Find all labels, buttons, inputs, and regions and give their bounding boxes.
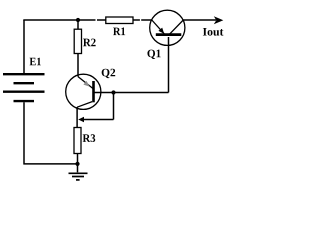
transistor Q2 base bar <box>92 81 95 102</box>
transistor Q1 emitter arrow <box>158 28 164 34</box>
node: junction dot rail/R2 <box>76 18 80 22</box>
wire: top rail from left corner to R1 (small break near x=96) <box>23 19 106 21</box>
transistor Q1 circle <box>150 10 185 45</box>
transistor Q2 collector line <box>77 102 92 108</box>
wire: base bus A from Q2 base to corner below Q1 <box>94 92 169 94</box>
wire: R1 right terminal to Q1 emitter (small break near x=140) <box>133 19 152 21</box>
wire: Q2 collector lead down to R3 <box>76 107 78 128</box>
label R1 <box>113 28 125 36</box>
wire: left rail from top corner down to battery top <box>23 20 25 73</box>
feedback arrow into Q2 collector node <box>78 117 84 123</box>
wire: C feedback line to Q2 collector node (ends in arrow) <box>83 119 114 121</box>
resistor R3 body <box>74 128 81 154</box>
label R2 <box>83 39 96 47</box>
wire: B vertical from corner up to Q1 base bar <box>168 37 170 93</box>
label Q2 <box>102 69 116 78</box>
wire: D vertical from base-bus node down to feedback line <box>113 93 115 120</box>
wire: Q1 collector to output arrow <box>183 19 216 21</box>
label R3 <box>83 134 96 142</box>
wire: left rail bottom and bottom return wire to R3 node <box>23 102 77 164</box>
node: junction dot base bus / feedback <box>111 90 115 94</box>
transistor Q2 emitter arrow (grey) <box>83 81 89 87</box>
transistor Q2 emitter line <box>78 77 93 89</box>
label E1 <box>30 58 41 66</box>
label Q1 <box>147 50 160 59</box>
node: junction dot bottom wire / R3 / ground <box>75 162 79 166</box>
output arrowhead Iout <box>214 16 224 24</box>
resistor R2 body <box>74 29 81 53</box>
transistor Q1 base bar <box>156 33 182 36</box>
wire: R2 bottom lead into Q2 <box>77 54 79 77</box>
transistor Q1 collector line <box>169 20 184 35</box>
battery E1 plates <box>3 74 45 101</box>
wire: R2 top lead from node A <box>77 20 79 29</box>
resistor R1 body <box>106 17 133 24</box>
label Iout <box>203 28 224 36</box>
transistor Q2 circle <box>66 74 101 109</box>
wire: R3 bottom lead down through node to ground <box>77 154 79 173</box>
transistor Q1 emitter line <box>152 20 164 34</box>
ground symbol <box>69 173 88 180</box>
